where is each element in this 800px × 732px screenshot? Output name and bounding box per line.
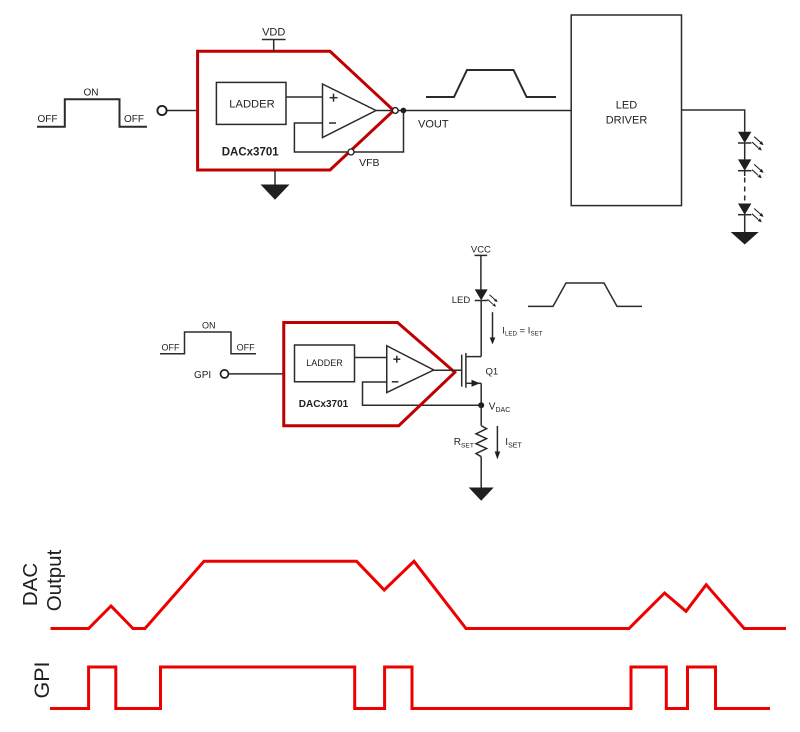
DAC block DACx3701 (top, red pentagon) [198, 51, 394, 170]
LED D2 emission arrows [752, 164, 764, 178]
current arrow ILED [490, 312, 496, 344]
transistor Q1 [462, 301, 482, 406]
DAC block DACx3701 (middle, red pentagon) [284, 323, 455, 426]
LED D2 [738, 159, 751, 170]
junction dot VOUT [401, 108, 407, 114]
svg-text:RSET: RSET [454, 437, 474, 450]
LED driver block [571, 15, 681, 206]
input waveform OFF/ON/OFF (top) [37, 99, 147, 127]
LED D4 (middle) [475, 289, 488, 300]
svg-text:OFF: OFF [124, 114, 144, 125]
svg-text:ISET: ISET [505, 437, 522, 450]
wire D2 stub [744, 171, 746, 176]
svg-text:DACx3701: DACx3701 [299, 399, 349, 410]
LED D1 emission arrows [752, 137, 764, 151]
svg-text:LED: LED [452, 295, 471, 306]
svg-text:OFF: OFF [162, 343, 180, 353]
op-amp U2 (middle) [387, 346, 434, 393]
wire ladder to op-amp non-inverting input (top) [286, 96, 323, 98]
current arrow ISET [495, 426, 501, 460]
op-amp U1 (top) [323, 84, 377, 138]
ladder block (top) [216, 82, 286, 124]
svg-text:Q1: Q1 [486, 366, 499, 377]
wire GPI to DAC (middle) [229, 373, 284, 375]
svg-text:OFF: OFF [237, 343, 255, 353]
output terminal circle (top) [392, 108, 398, 114]
svg-text:VCC: VCC [471, 245, 491, 256]
svg-text:VDAC: VDAC [489, 401, 510, 414]
ground (top DAC) [261, 170, 290, 200]
wire D3 to ground [744, 215, 746, 232]
svg-text:GPI: GPI [194, 370, 211, 381]
feedback wire VOUT to VFB to op-amp inverting input (top) [294, 111, 403, 153]
wire RSET to ground [480, 457, 482, 488]
resistor RSET [476, 426, 487, 457]
svg-text:Output: Output [43, 549, 66, 611]
input terminal circle (top) [157, 106, 166, 115]
wire op-amp output to gate of Q1 [434, 369, 462, 371]
wire LED driver output to LED string [682, 110, 745, 132]
DAC output analog waveform (red) [51, 561, 787, 628]
ground (RSET) [469, 488, 494, 501]
svg-text:GPI: GPI [30, 661, 54, 698]
wire D1 to D2 [744, 143, 746, 159]
LED D4 emission arrows [488, 295, 498, 307]
label DAC Output (rotated) [19, 549, 66, 611]
dashed wire (more LEDs implied) [744, 178, 746, 203]
VDD supply [262, 27, 286, 52]
svg-text:VDD: VDD [262, 27, 285, 39]
LED D1 [738, 132, 751, 143]
svg-text:ON: ON [202, 321, 216, 331]
LED D3 emission arrows [752, 209, 764, 223]
svg-text:LADDER: LADDER [306, 358, 343, 368]
LED current trapezoid waveform (middle) [528, 283, 642, 306]
input waveform OFF/ON/OFF (middle) [160, 332, 256, 354]
VOUT trapezoid waveform [426, 70, 556, 97]
node VDAC [478, 402, 484, 408]
LED D3 [738, 204, 751, 215]
VFB terminal circle [348, 149, 354, 155]
wire input terminal to DAC (top) [167, 110, 198, 112]
GPI digital waveform (red) [50, 667, 770, 709]
feedback wire op-amp inverting input to VDAC (middle) [363, 382, 482, 405]
svg-text:LED: LED [616, 100, 637, 112]
svg-text:ILED = ISET: ILED = ISET [502, 326, 542, 338]
wire op-amp output to LED driver (VOUT net) [376, 110, 571, 112]
svg-text:ON: ON [84, 88, 99, 99]
ladder block (middle) [295, 345, 355, 382]
GPI terminal circle [221, 370, 229, 378]
ground (LED string) [731, 232, 759, 245]
svg-text:VFB: VFB [359, 157, 379, 169]
VCC supply [471, 245, 491, 290]
wire ladder to op-amp non-inverting input (middle) [355, 357, 387, 359]
wire VDAC to RSET [480, 405, 482, 425]
svg-text:DACx3701: DACx3701 [222, 147, 279, 159]
svg-text:DRIVER: DRIVER [606, 115, 648, 127]
svg-text:LADDER: LADDER [229, 98, 274, 110]
svg-text:DAC: DAC [19, 563, 42, 606]
svg-text:OFF: OFF [38, 114, 58, 125]
svg-text:VOUT: VOUT [418, 119, 449, 131]
